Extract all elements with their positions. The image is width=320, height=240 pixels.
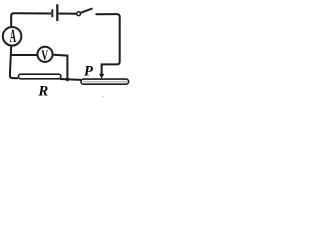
battery B1 long plate (positive) bbox=[56, 4, 58, 21]
scan speck bbox=[102, 96, 104, 98]
wire voltmeter to bottom rail bbox=[54, 55, 68, 81]
wire top-left + left rail to ammeter bbox=[11, 13, 51, 26]
wire bottom rail R to rheostat bbox=[60, 78, 81, 81]
rheostat wiper arrowhead bbox=[99, 74, 104, 79]
svg-text:R: R bbox=[37, 84, 48, 100]
svg-text:A: A bbox=[10, 27, 16, 48]
wire switch to top-right corner, right rail, to rheostat arrow bbox=[96, 14, 120, 74]
svg-text:P: P bbox=[84, 63, 94, 79]
wire left rail to voltmeter bbox=[10, 54, 37, 56]
junction node bbox=[66, 78, 69, 81]
rheostat P body bbox=[81, 79, 129, 84]
resistor R body bbox=[18, 74, 61, 79]
switch S pivot bbox=[77, 12, 81, 16]
background bbox=[0, 0, 132, 101]
wire ammeter to bottom-left corner to resistor bbox=[10, 46, 18, 78]
wire battery to switch bbox=[59, 13, 77, 15]
switch S blade bbox=[81, 8, 93, 12]
rheostat track faint line bbox=[83, 81, 127, 83]
ammeter A bbox=[3, 27, 22, 46]
battery B1 short plate (negative) bbox=[51, 9, 53, 17]
svg-text:V: V bbox=[41, 47, 48, 64]
voltmeter V bbox=[37, 47, 52, 62]
